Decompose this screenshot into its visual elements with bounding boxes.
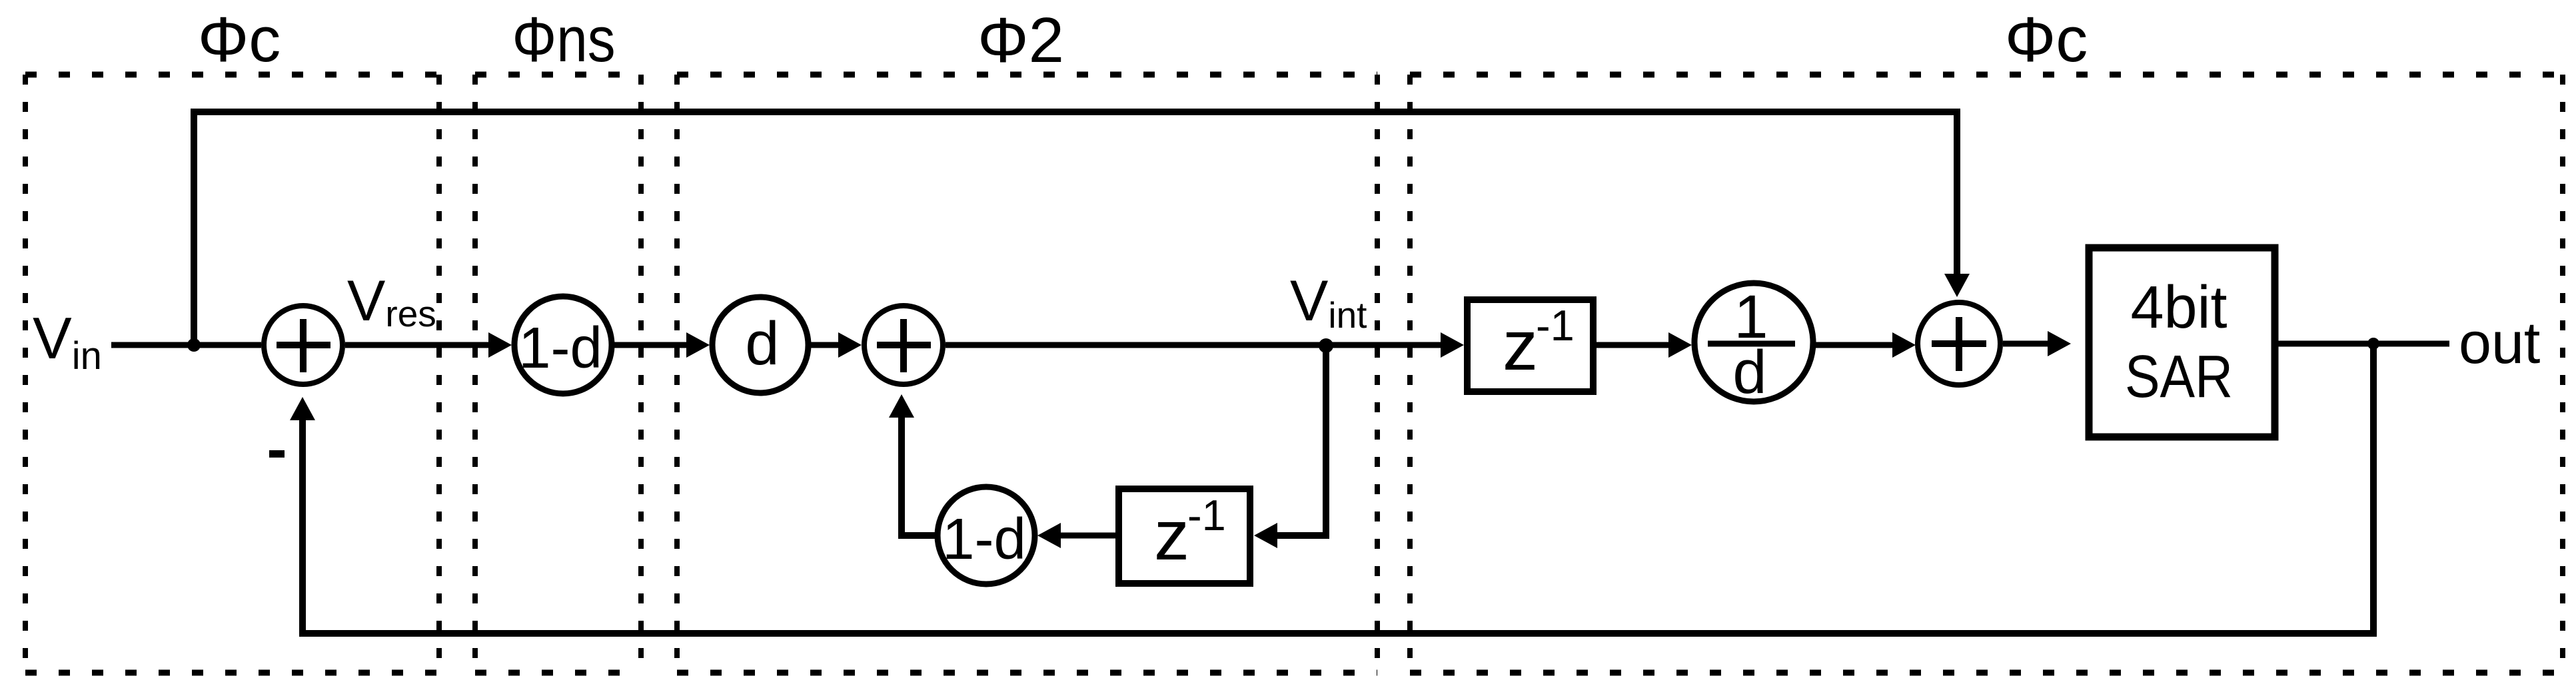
svg-text:Φns: Φns (512, 4, 616, 75)
svg-text:out: out (2459, 310, 2540, 376)
label minus sign at S1 (269, 450, 285, 458)
svg-text:-1: -1 (1187, 491, 1226, 539)
wire inner feedback from Vint down to delay z-1 inner (1273, 345, 1326, 535)
wire Vin to summer S1 (111, 342, 261, 348)
svg-text:4bit: 4bit (2130, 274, 2227, 341)
clock region box Phi-ns (475, 75, 641, 673)
gain block d (712, 297, 808, 393)
node output tap (2367, 338, 2379, 350)
svg-text:-1: -1 (1536, 301, 1575, 350)
wire z-1 inner to gain 1-d second (1056, 533, 1115, 539)
wire d to summer S2 (811, 342, 843, 348)
svg-text:d: d (745, 310, 779, 378)
summer S1 (264, 306, 342, 384)
wire 1-d second to summer S2 (902, 418, 938, 535)
wire SAR to out (2278, 341, 2449, 347)
svg-text:Φc: Φc (198, 4, 281, 75)
clock region box Phi-c left (25, 75, 439, 673)
summer S3 (1918, 302, 2000, 385)
summer S2 (864, 306, 943, 384)
wire S3 to SAR block (2003, 341, 2049, 347)
svg-text:d: d (1732, 338, 1766, 406)
svg-text:1-d: 1-d (518, 316, 602, 380)
wire top feedforward from input node to summer S3 (194, 112, 1957, 345)
svg-text:Φc: Φc (2005, 4, 2088, 75)
gain block 1-d second (938, 487, 1035, 584)
svg-text:SAR: SAR (2125, 344, 2233, 410)
wire 1-d to gain d (614, 342, 691, 348)
svg-text:z: z (1154, 496, 1189, 575)
gain block 1/d (1694, 283, 1813, 406)
clock region box Phi-2 (677, 75, 1377, 673)
svg-text:Φ2: Φ2 (977, 5, 1064, 76)
delay block z-1 upper (1467, 300, 1593, 392)
wire output feedback bottom to S1 (303, 344, 2373, 633)
wire z-1 upper to gain 1/d (1597, 342, 1673, 348)
node Vint junction (1319, 338, 1333, 353)
wire S1 to gain 1-d (345, 342, 493, 348)
gain block 1-d first (514, 296, 612, 394)
wire 1/d to summer S3 (1816, 342, 1897, 348)
wire S2 to delay z-1 upper (946, 342, 1446, 348)
delay block z-1 inner (1119, 489, 1250, 583)
node input junction (187, 338, 201, 352)
svg-text:z: z (1503, 306, 1538, 385)
svg-text:1-d: 1-d (942, 507, 1026, 571)
clock region box Phi-c right (1410, 75, 2563, 673)
block 4bit SAR (2089, 248, 2275, 437)
